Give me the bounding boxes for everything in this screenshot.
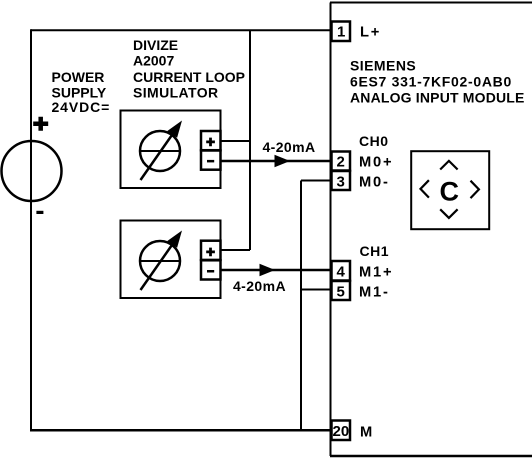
simulator 1 current source circle <box>140 131 180 171</box>
wire top L+ bus <box>31 29 330 31</box>
svg-text:POWER: POWER <box>52 69 105 85</box>
wire simulator1 minus to M0+ <box>220 160 331 163</box>
svg-text:5: 5 <box>337 284 345 301</box>
logo chevron right <box>471 181 479 198</box>
wire M0- return <box>301 180 331 182</box>
terminal 4 box <box>332 261 351 281</box>
simulator 1 arrowhead <box>167 121 182 138</box>
simulator 1 minus glyph <box>207 160 214 163</box>
terminal 5 box <box>332 281 351 300</box>
wire return vertical to M <box>300 181 302 431</box>
wire bottom M return <box>30 429 331 432</box>
wire left vertical from power supply <box>30 29 32 430</box>
arrowhead on 4-20mA wire CH0 <box>275 155 291 167</box>
svg-text:4-20mA: 4-20mA <box>233 278 286 294</box>
svg-text:CH0: CH0 <box>359 133 389 149</box>
wire simulator2 minus to M1+ <box>220 269 331 272</box>
svg-text:DIVIZE: DIVIZE <box>133 37 178 53</box>
svg-text:A2007: A2007 <box>133 53 174 69</box>
svg-text:2: 2 <box>337 154 345 171</box>
wire simulator1 plus <box>220 140 251 142</box>
svg-text:C: C <box>440 177 460 207</box>
svg-text:4: 4 <box>337 264 346 281</box>
module bottom edge <box>330 455 532 458</box>
svg-text:CH1: CH1 <box>360 243 390 259</box>
simulator 2 diameter line <box>140 260 180 262</box>
svg-text:M: M <box>360 425 372 441</box>
svg-text:6ES7 331-7KF02-0AB0: 6ES7 331-7KF02-0AB0 <box>350 74 512 90</box>
svg-text:SUPPLY: SUPPLY <box>52 84 107 100</box>
svg-text:24VDC=: 24VDC= <box>52 99 111 115</box>
terminal 20 box <box>332 421 351 441</box>
simulator 1 box <box>121 111 221 189</box>
simulator 1 plus glyph <box>206 138 215 147</box>
svg-text:1: 1 <box>337 24 345 41</box>
svg-text:L+: L+ <box>360 25 381 41</box>
logo chevron left <box>421 180 429 197</box>
wire simulator2 plus <box>220 249 250 251</box>
svg-text:3: 3 <box>337 174 345 191</box>
simulator 2 minus glyph <box>207 270 214 273</box>
simulator 1 plus terminal box <box>201 131 221 150</box>
arrowhead on 4-20mA wire CH1 <box>260 264 276 276</box>
svg-text:20: 20 <box>333 423 350 440</box>
terminal 3 box <box>332 171 351 190</box>
svg-text:SIEMENS: SIEMENS <box>350 58 416 74</box>
svg-text:ANALOG INPUT MODULE: ANALOG INPUT MODULE <box>350 90 525 106</box>
simulator 1 minus terminal box <box>201 151 221 170</box>
simulator 2 minus terminal box <box>201 260 221 279</box>
module left edge <box>330 3 332 457</box>
simulator 1 diameter line <box>140 150 180 152</box>
simulator 2 plus terminal box <box>201 241 221 260</box>
svg-text:M0-: M0- <box>359 175 390 191</box>
logo chevron up <box>440 161 457 170</box>
svg-text:M1-: M1- <box>359 285 390 301</box>
power supply plus sign <box>33 117 48 131</box>
simulator 2 box <box>121 221 221 299</box>
svg-text:M0+: M0+ <box>359 155 393 171</box>
wire M1- return <box>301 289 331 291</box>
terminal 2 box <box>332 152 351 171</box>
svg-text:4-20mA: 4-20mA <box>263 139 316 155</box>
svg-text:CURRENT LOOP: CURRENT LOOP <box>133 69 245 85</box>
simulator 2 current source circle <box>140 241 180 281</box>
simulator 2 arrow shaft <box>141 244 174 291</box>
svg-text:M1+: M1+ <box>359 265 393 281</box>
power supply circle <box>2 141 62 201</box>
logo chevron down <box>440 209 457 218</box>
module top edge <box>330 2 532 4</box>
terminal 1 box <box>332 22 351 42</box>
simulator 1 arrow shaft <box>141 134 174 181</box>
simulator 2 plus glyph <box>206 248 215 257</box>
siemens logo box <box>411 151 489 229</box>
wire branch vertical to simulator + terminals <box>249 30 251 250</box>
power supply minus sign <box>36 211 43 214</box>
simulator 2 arrowhead <box>167 231 182 248</box>
svg-text:SIMULATOR: SIMULATOR <box>133 85 219 101</box>
